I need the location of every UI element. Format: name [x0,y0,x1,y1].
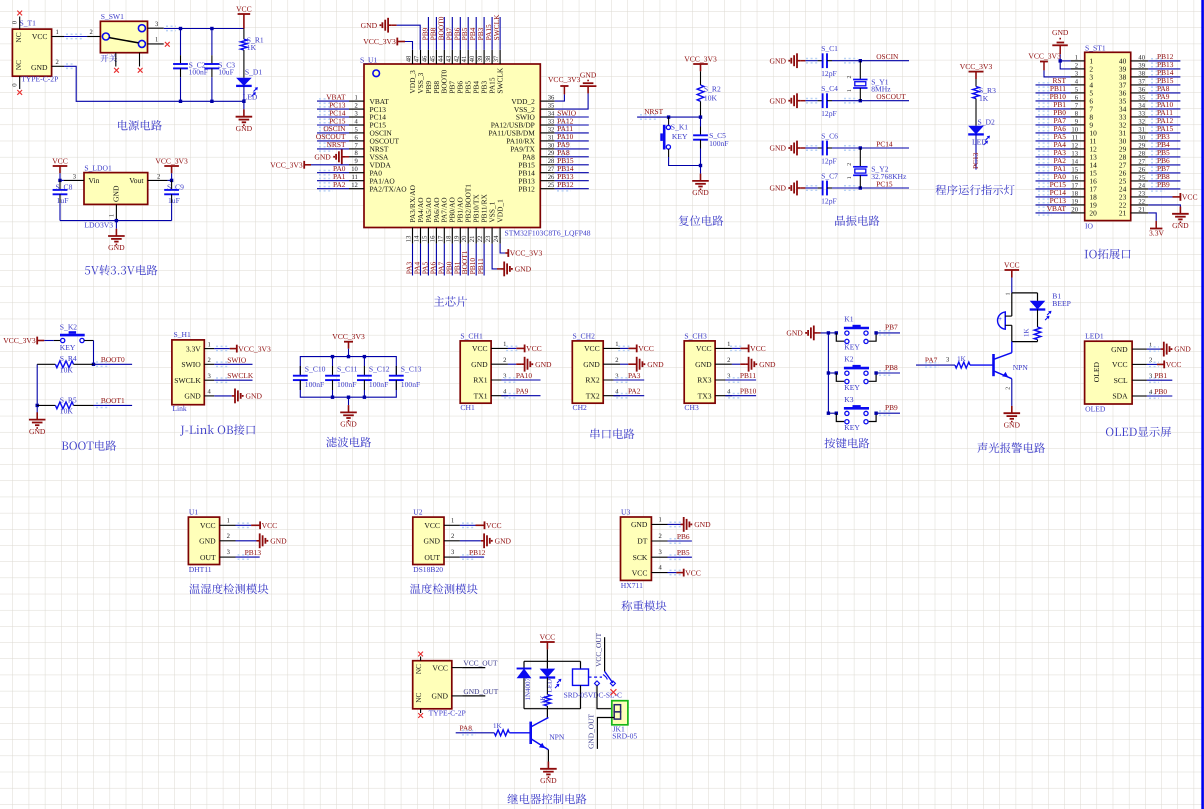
pin 44 BOOT0 stub top [437,50,444,64]
svg-text:34: 34 [1138,102,1145,109]
svg-text:S_LDO1: S_LDO1 [84,164,112,173]
wire rail to K2 [828,372,836,374]
svg-text:SWIO: SWIO [227,355,247,364]
svg-text:GND_OUT: GND_OUT [463,687,498,696]
svg-text:3.3V: 3.3V [1149,228,1164,237]
wire C2 top lead [180,29,182,49]
wire pin 47 to GND [397,25,421,50]
svg-text:VCC: VCC [685,568,701,577]
wire pin1 oled [1147,347,1161,351]
wire net OSCOUT [832,99,909,103]
svg-text:GND: GND [770,96,787,105]
pin 23 VSS_1 stub bottom [485,228,492,244]
crystal S_Y1 8MHz [847,61,868,101]
pin 35 stub right io [1131,94,1149,101]
svg-text:1: 1 [451,517,454,524]
svg-text:S_C13: S_C13 [401,364,422,373]
svg-text:1: 1 [847,176,853,179]
svg-text:NPN: NPN [1013,363,1029,372]
pin 1 stub U1 [220,517,236,525]
svg-text:PB6: PB6 [677,532,690,541]
wire relay bottom rail [524,708,581,710]
wire gnd to S_C1 [805,59,818,63]
regulator S_LDO1 [84,173,148,205]
wire net PA8 [555,155,589,159]
wire keys gnd rail [821,333,829,413]
svg-text:S_C1: S_C1 [821,44,838,53]
wire LED gnd stem [243,101,245,109]
svg-text:10: 10 [351,166,358,173]
svg-text:41: 41 [461,56,468,63]
svg-text:30: 30 [1138,134,1145,141]
svg-text:47: 47 [414,55,421,62]
pin 31 stub right io [1131,126,1149,133]
svg-text:14: 14 [1071,158,1078,165]
resistor 1K relay [544,678,551,709]
wire net PA9 S_CH1 [501,394,540,398]
svg-text:100nF: 100nF [369,380,388,389]
svg-text:LED1: LED1 [1085,332,1104,341]
pin 2 stub [148,173,168,180]
svg-text:11: 11 [351,174,357,181]
junction bottom rail C2 [179,100,182,103]
svg-text:2: 2 [56,59,59,66]
svg-text:27: 27 [1138,158,1145,165]
pin 29 stub right io [1131,142,1149,149]
wire pin2 oled [1147,362,1159,366]
pin 3 stub U1 [220,549,236,557]
ground GND filter [340,405,357,429]
capacitor S_C4 [818,93,832,108]
svg-text:S_D2: S_D2 [978,117,996,126]
svg-text:KEY: KEY [844,343,860,352]
pin 16 stub left io [1071,174,1085,181]
svg-text:OLED: OLED [1085,404,1106,413]
pin 40 PB4 stub top [469,50,476,64]
wire net PA2 S_CH2 [613,394,644,398]
resistor 1K base relay [494,730,509,736]
no-connect X bottom right [138,68,143,73]
pin 10 stub left io [1071,126,1085,133]
wire alarm top rail [1012,292,1038,294]
pin 17 PA7/AO stub bottom [437,228,444,244]
wire net OSCOUT [317,139,349,143]
svg-text:NC: NC [14,32,23,42]
svg-text:SDA: SDA [1112,392,1128,401]
pin 38 stub right io [1131,70,1149,77]
wire net PB8 [435,17,437,50]
ground GND jlink [232,389,263,404]
svg-text:SWIO: SWIO [181,360,201,369]
wire net NRST [317,147,349,151]
title 继电器控制电路 [507,794,586,805]
relay coil SRD-05VDC-SL-C [573,661,589,708]
pin 30 PA9/TX stub right [540,142,555,149]
wire net PA10 io right [1148,107,1180,111]
wire vcc3v3 io pin3 [1044,70,1071,77]
wire VCC to Vin [59,173,61,180]
svg-text:18: 18 [445,235,452,242]
svg-text:16: 16 [1071,174,1078,181]
wire net PC15 [832,186,909,190]
wire pin21 to 3.3V [1148,213,1156,221]
svg-text:PA8: PA8 [460,723,473,732]
wire net RST io [1036,83,1071,87]
wire collector relay [546,709,548,718]
svg-text:PB12: PB12 [518,184,535,193]
wire vin node [60,179,64,181]
svg-text:KEY: KEY [672,132,688,141]
pin 3 stub U3 [651,549,667,557]
wire pin 23 VSS_1 to GND [492,244,497,269]
wire GND down to bottom rail [64,64,244,101]
wire net PA11 [555,131,589,135]
junction NRST cap [699,115,702,118]
svg-text:VCC: VCC [262,521,278,530]
wire pin2 to vcc3v3 [168,179,172,181]
title 滤波电路 [326,437,371,448]
svg-text:PB9: PB9 [885,403,898,412]
transistor NPN alarm [994,353,1012,379]
svg-text:U1: U1 [189,508,198,517]
wire pin 35 to GND [555,93,588,109]
pin 25 PB12 stub right [540,182,555,189]
LED S_D2 [968,126,990,145]
pin 12 PA2/TX/AO stub left [349,182,364,189]
junction NRST button [667,115,670,118]
svg-text:1K: 1K [979,94,989,103]
svg-text:25: 25 [1138,174,1145,181]
svg-text:VCC_3V3: VCC_3V3 [684,54,717,63]
svg-text:S_CH1: S_CH1 [460,331,483,340]
wire net PB1 io [1036,107,1071,111]
capacitor S_C13 [389,366,404,390]
svg-text:S_C4: S_C4 [821,84,838,93]
power VCC io [1173,193,1198,202]
junction crystal OSCOUT [859,99,862,102]
wire net PA0 [317,171,349,175]
svg-text:CH1: CH1 [460,403,475,412]
svg-text:BOOT0: BOOT0 [101,355,125,364]
svg-text:CH3: CH3 [684,403,699,412]
svg-text:36: 36 [548,95,555,102]
svg-text:IO: IO [1085,221,1094,230]
wire base relay right [509,732,530,734]
svg-text:1N4007: 1N4007 [524,677,532,700]
ground GND io [1172,207,1189,231]
wire base alarm right [970,364,994,366]
junction K2 left [835,371,838,374]
svg-text:S_H1: S_H1 [174,330,192,339]
pin 47 VSS_3 stub top [414,50,421,64]
svg-text:GND: GND [108,243,125,252]
svg-text:OSCIN: OSCIN [876,52,899,61]
svg-text:100nF: 100nF [305,380,324,389]
svg-text:NC: NC [14,60,23,70]
wire net PB11 [483,244,485,276]
svg-text:VCC: VCC [1004,260,1020,269]
svg-text:SWCLK: SWCLK [174,376,201,385]
wire net PA2 [317,187,349,191]
svg-text:Link: Link [172,404,187,413]
svg-text:K1: K1 [844,315,853,324]
wire net PB10 [475,244,477,276]
svg-text:GND: GND [786,329,803,338]
power VCC alarm [1004,260,1020,277]
svg-text:32: 32 [548,126,555,133]
svg-text:PB1: PB1 [1154,371,1167,380]
svg-text:VBAT: VBAT [1047,204,1067,213]
wire relay common VCC_OUT [604,637,606,671]
svg-text:2: 2 [1075,62,1078,69]
title J-Link OB接口 [180,424,255,435]
ground GND oled [1161,342,1192,357]
wire vcc alarm stem [1011,278,1013,293]
svg-text:VCC_3V3: VCC_3V3 [238,344,271,353]
svg-text:NRST: NRST [644,107,663,116]
pin 11 stub left io [1071,134,1085,141]
wire filter C11 bottom [332,390,334,397]
wire net PB13 [555,179,589,183]
wire boot rail left [36,364,38,419]
pin 6 OSCOUT stub left [349,134,364,141]
switch S_SW1 [100,21,147,52]
capacitor S_C6 [818,141,832,156]
title 温湿度检测模块 [189,583,268,594]
wire alarm bottom rail [1012,341,1038,343]
wire net PB12 U2 [460,555,484,559]
wire net BOOT0 [443,17,445,50]
wire net PA6 io [1036,131,1071,135]
svg-text:U3: U3 [621,508,630,517]
svg-text:LED: LED [972,138,987,147]
wire pin1 jlink [214,346,229,350]
pin 3 stub switch right [148,21,164,28]
pin 1 stub S_CH3 [715,341,732,348]
junction crystal OSCIN [859,59,862,62]
module U3 body [621,517,652,580]
svg-text:Vout: Vout [129,176,144,185]
wire key2 down to boot0 [93,341,95,365]
wire buzzer bottom [1011,325,1013,341]
ground GND U3 [681,517,712,532]
power VCC_3V3 io pin3 [1028,51,1061,70]
svg-text:DS18B20: DS18B20 [413,565,443,574]
junction Vin node [58,179,61,182]
power VCC_3V3 chip top [363,37,405,46]
svg-text:PB9: PB9 [1157,180,1170,189]
wire net PB0 [451,244,453,276]
junction Vout node [170,179,173,182]
power VCC S_CH3 [740,344,765,353]
svg-text:10K: 10K [60,407,74,416]
wire net PB11 S_CH3 [725,378,756,382]
svg-text:VCC: VCC [1182,193,1198,202]
svg-text:GND: GND [1174,345,1191,354]
ground GND U2 [481,533,512,548]
pin 22 stub right io [1131,198,1149,205]
ground GND boot [29,412,46,436]
svg-text:VCC: VCC [540,632,556,641]
pin VCC stub relay conn [452,667,462,669]
wire reset bottom rail [669,157,701,166]
wire net PA7 io [1036,123,1071,127]
wire net PA10 [555,139,589,143]
svg-text:CH2: CH2 [573,403,588,412]
wire C3 bottom lead [211,84,213,101]
svg-text:RX2: RX2 [585,376,600,385]
svg-text:15: 15 [421,235,428,242]
svg-text:44: 44 [437,55,444,62]
svg-text:U2: U2 [413,508,422,517]
svg-text:VCC: VCC [200,521,216,530]
wire vcc relay stem [546,649,548,661]
pin 4 stub S_H1 [204,389,214,396]
svg-text:PC14: PC14 [876,139,893,148]
svg-text:1: 1 [847,89,853,92]
svg-text:1uF: 1uF [168,196,180,205]
power VCC_3V3 VDD_1 [505,249,542,258]
wire net PC14 [317,115,349,119]
wire emitter relay down [547,750,549,769]
pin 48 VDD_3 stub top [406,50,413,64]
svg-text:S_CH2: S_CH2 [573,331,596,340]
wire pin4 U3 vcc [668,570,683,574]
title 电源电路 [118,120,162,130]
junction bottom rail LED [242,100,245,103]
power VCC_3V3 VDDA pin 9 [270,161,349,170]
wire net PB4 io right [1148,147,1180,151]
pin 33 stub right io [1131,110,1149,117]
no-connect X pin 1 [165,42,170,47]
capacitor S_C9 [164,180,179,220]
svg-text:2: 2 [355,103,358,110]
svg-text:GND: GND [580,70,597,79]
wire net PC14 io [1036,195,1071,199]
relay contact point left [594,681,599,686]
svg-text:GND: GND [770,184,787,193]
svg-text:24: 24 [493,235,500,242]
power VCC_3V3 boot [3,336,44,345]
wire net PB7 io right [1148,171,1180,175]
ground GND relay [540,762,557,786]
pin 1 stub S_H1 [204,341,214,348]
svg-text:34: 34 [548,110,555,117]
title 主芯片 [434,296,467,306]
ground GND S_C4 [770,93,806,108]
svg-text:19: 19 [453,235,460,242]
wire net BOOT0 [94,362,133,366]
wire rail to K1 [828,332,836,334]
pin 26 PB13 stub right [540,174,555,181]
svg-text:VCC: VCC [632,568,648,577]
connector S_CH2 body [572,341,603,403]
power VCC_3V3 ldo [155,156,188,180]
svg-text:1K: 1K [539,695,547,704]
wire contact to JK1 [597,686,614,709]
svg-text:2: 2 [727,357,730,364]
pin 2 stub S_CH2 [603,357,620,364]
svg-text:36: 36 [1138,86,1145,93]
ground GND U1 [257,533,288,548]
svg-text:35: 35 [548,103,555,110]
no-connect X relay top [418,652,423,657]
pin top relay conn with X [420,657,422,661]
wire net PC13 [317,107,349,111]
pin 9 VDDA stub left [349,158,364,165]
junction K3 right [874,412,877,415]
junction key rail K2 [827,371,830,374]
pin 28 stub right io [1131,150,1149,157]
resistor 1K base alarm [955,362,970,368]
junction gnd rail ldo [115,219,118,222]
svg-text:S_U1: S_U1 [360,55,378,64]
svg-text:GND: GND [29,427,46,436]
wire pin1 U3 gnd [668,522,683,526]
svg-text:20: 20 [1089,209,1097,218]
pin 3 stub S_CH1 [491,373,508,380]
no-connect X bottom left [114,68,119,73]
svg-text:2: 2 [208,357,211,364]
capacitor S_C12 [357,366,372,390]
svg-text:GND: GND [314,152,331,161]
pin 32 PA11/USB/DM stub right [540,126,554,133]
svg-text:GND: GND [495,536,512,545]
wire net PA6 [435,244,437,276]
wire net PA4 io [1036,147,1071,151]
wire pin 36 to VCC_3V3 [555,94,565,101]
wire net SWIO jlink [214,362,252,366]
wire net PB1 oled [1147,378,1172,382]
svg-text:GND: GND [31,63,48,72]
svg-text:TYPE-C-2P: TYPE-C-2P [429,708,466,717]
switch pole circle left [102,33,109,40]
title BOOT电路 [62,440,117,450]
svg-text:S_C10: S_C10 [305,364,326,373]
svg-text:27: 27 [548,166,555,173]
svg-text:2: 2 [1149,357,1152,364]
svg-text:S_C9: S_C9 [167,182,184,191]
pin 1 stub S_CH2 [603,341,620,348]
svg-text:K3: K3 [844,395,853,404]
svg-text:2: 2 [227,533,230,540]
svg-text:S_SW1: S_SW1 [101,12,124,21]
pin GND stub relay conn [452,695,462,697]
svg-text:TX3: TX3 [698,391,712,400]
wire C3 top lead [211,29,213,49]
wire pin1 S_CH3 [730,346,742,350]
svg-text:VCC_3V3: VCC_3V3 [548,75,581,84]
wire net PB10 io [1036,99,1071,103]
wire pin1 S_CH1 [506,346,518,350]
title 串口电路 [590,429,634,439]
pin 33 PA12/USB/DP stub right [540,118,555,125]
svg-text:GND: GND [270,536,287,545]
junction K1 left [835,331,838,334]
no-connect X relay contact [610,689,616,695]
svg-text:OLED: OLED [1092,361,1101,382]
svg-text:BOOT1: BOOT1 [101,396,125,405]
resistor S_R4 [37,361,73,368]
push button K2 [836,365,876,384]
svg-text:25: 25 [548,182,555,189]
wire ldo gnd stem [115,221,117,229]
svg-text:GND: GND [432,692,449,701]
svg-text:LDO3V3: LDO3V3 [84,221,113,230]
svg-text:S_C12: S_C12 [369,364,390,373]
svg-text:PB13: PB13 [245,548,262,557]
power VCC_3V3 filter [332,332,365,349]
